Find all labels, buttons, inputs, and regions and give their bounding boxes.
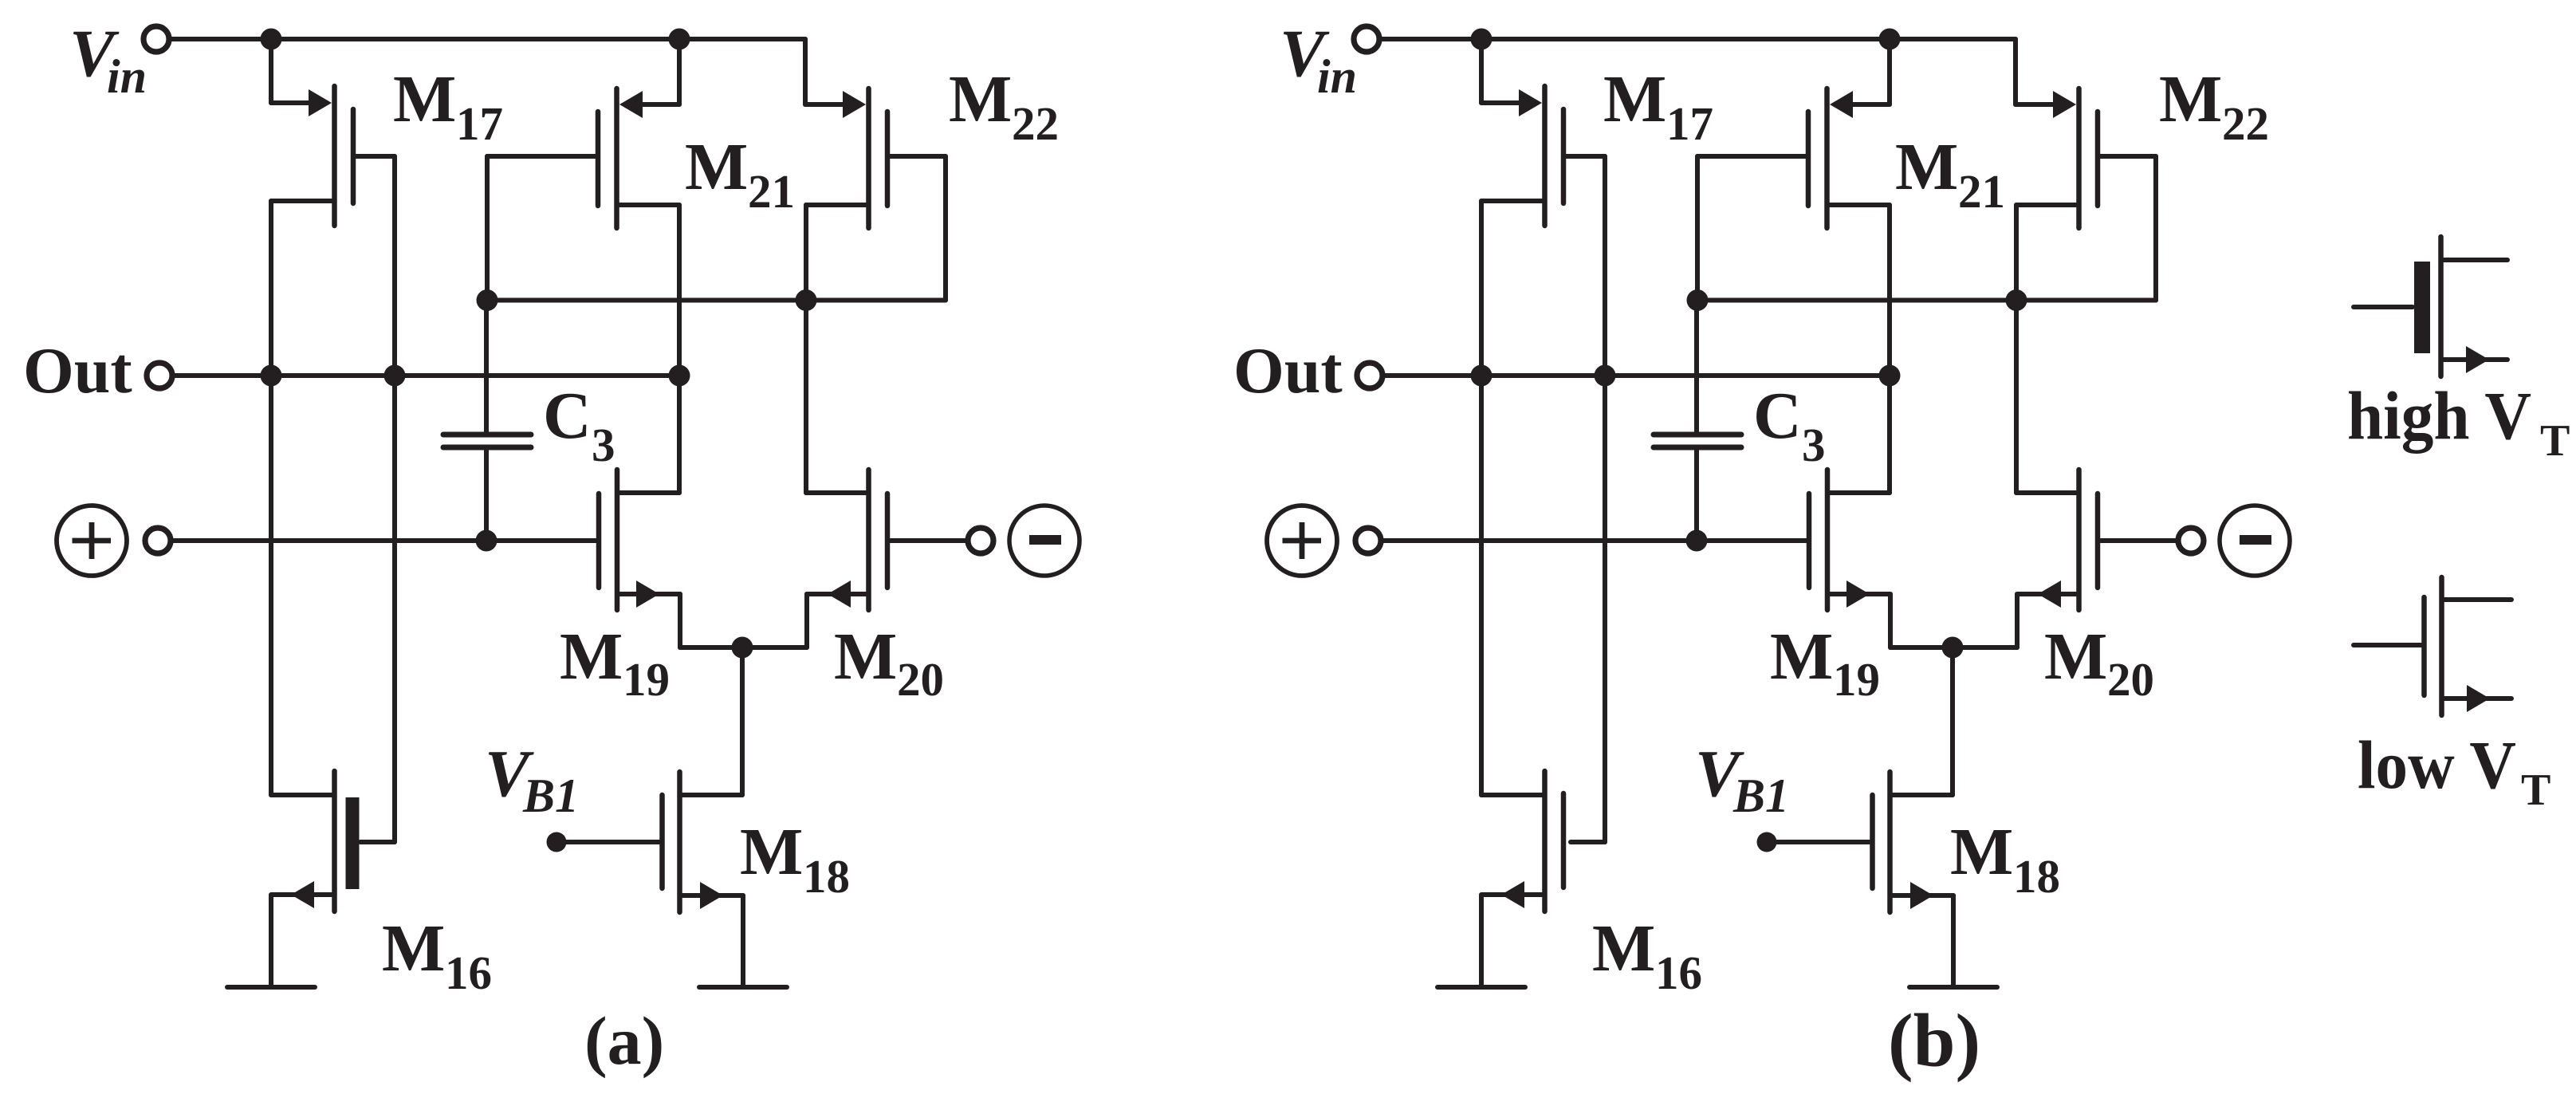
- terminal Out (a): [147, 363, 172, 388]
- svg-text:M: M: [393, 62, 456, 136]
- junction bus-C3 (a): [477, 289, 498, 311]
- svg-text:Out: Out: [1233, 334, 1343, 407]
- svg-text:M: M: [949, 62, 1012, 136]
- junction bus-M22 drain (a): [796, 289, 817, 311]
- svg-text:M: M: [1895, 130, 1958, 204]
- svg-text:19: 19: [623, 653, 670, 706]
- svg-text:17: 17: [1666, 97, 1713, 150]
- svg-text:M: M: [1770, 620, 1833, 694]
- svg-text:22: 22: [2222, 97, 2269, 150]
- svg-text:3: 3: [592, 419, 615, 471]
- wire M17 gate to M16 gate (b): [1603, 156, 1607, 842]
- plus input symbol (a): [57, 506, 127, 576]
- svg-text:(a): (a): [584, 1002, 664, 1079]
- svg-text:21: 21: [1958, 165, 2005, 218]
- junction rail-M21 (b): [1879, 29, 1901, 50]
- svg-text:high V: high V: [2347, 377, 2531, 454]
- junction Out-M21 drain (b): [1879, 365, 1901, 387]
- svg-text:C: C: [543, 379, 592, 453]
- svg-text:M: M: [382, 911, 445, 986]
- terminal Out (b): [1357, 363, 1382, 388]
- svg-text:T: T: [2521, 765, 2550, 815]
- svg-text:in: in: [107, 50, 147, 103]
- svg-text:M: M: [1950, 815, 2013, 889]
- svg-text:(b): (b): [1888, 998, 1980, 1083]
- wire plus line (a): [171, 538, 596, 543]
- transistor M19 (a): [599, 470, 680, 647]
- transistor M20 (a): [806, 470, 966, 647]
- transistor M21 (a): [487, 39, 679, 228]
- svg-text:C: C: [1753, 379, 1802, 453]
- junction Out-M17 drain (a): [261, 365, 282, 387]
- svg-text:M: M: [834, 620, 897, 694]
- svg-text:M: M: [2159, 62, 2222, 136]
- ground M18 (a): [699, 985, 787, 990]
- transistor M16 (a): [271, 771, 395, 987]
- terminal minus (a): [968, 528, 993, 553]
- svg-text:21: 21: [748, 165, 795, 218]
- junction Out-M17 gate (b): [1595, 365, 1616, 387]
- junction tail-M18 (a): [732, 637, 753, 659]
- junction Out-M17 gate (a): [384, 365, 406, 387]
- wire Vin rail (b): [1379, 37, 2016, 41]
- plus input symbol (b): [1267, 506, 1337, 576]
- terminal VB1 (a): [547, 832, 567, 852]
- wire M17 gate to M16 gate (a): [392, 156, 397, 842]
- wire tail to M18 drain (a): [740, 647, 745, 795]
- wire M22 gate drop (b): [2153, 156, 2158, 301]
- svg-text:17: 17: [456, 97, 503, 150]
- svg-text:B1: B1: [522, 769, 579, 822]
- junction plus-C3 (a): [476, 530, 498, 552]
- transistor M18 (a): [556, 772, 743, 987]
- legend low-VT transistor symbol: [2354, 577, 2511, 715]
- svg-text:16: 16: [1655, 946, 1702, 999]
- junction Out-M17 drain (b): [1471, 365, 1493, 387]
- svg-text:M: M: [2044, 620, 2107, 694]
- transistor M22 (a): [805, 39, 946, 228]
- wire M17 drain to M16 (a): [269, 201, 273, 795]
- wire tail (a): [680, 645, 807, 650]
- junction bus-C3 (b): [1687, 289, 1709, 311]
- junction plus-C3 (b): [1686, 530, 1708, 552]
- wire M21 gate drop (b): [1695, 156, 1700, 301]
- wire gate bus (b): [1697, 298, 2156, 303]
- svg-text:B1: B1: [1732, 769, 1789, 822]
- wire M22/M20 drain drop (a): [804, 205, 808, 493]
- svg-text:22: 22: [1012, 97, 1059, 150]
- terminal Vin (b): [1354, 26, 1379, 52]
- wire M22 gate drop (a): [943, 156, 948, 301]
- terminal minus (b): [2178, 528, 2204, 553]
- wire M21 gate drop (a): [485, 156, 490, 301]
- transistor M18 (b): [1767, 772, 1953, 987]
- wire M17 drain to M16 (b): [1479, 201, 1484, 795]
- minus input symbol (a): [1009, 506, 1080, 576]
- wire Out line (b): [1382, 373, 1890, 378]
- transistor M21 (b): [1697, 39, 1890, 228]
- ground M16 (b): [1437, 985, 1525, 990]
- junction tail-M18 (b): [1942, 637, 1964, 659]
- svg-text:M: M: [1603, 62, 1666, 136]
- svg-text:18: 18: [2013, 850, 2060, 903]
- wire M21 drain drop (b): [1887, 205, 1892, 493]
- svg-text:low V: low V: [2358, 726, 2516, 803]
- transistor M22 (b): [2016, 39, 2156, 228]
- svg-text:M: M: [1592, 911, 1655, 986]
- transistor M17 (b): [1481, 39, 1605, 226]
- junction rail-M17 (a): [261, 29, 282, 50]
- terminal VB1 (b): [1757, 832, 1777, 852]
- svg-text:20: 20: [897, 653, 944, 706]
- wire gate bus (a): [487, 298, 946, 303]
- svg-text:M: M: [740, 815, 803, 889]
- junction rail-M21 (a): [669, 29, 690, 50]
- svg-text:M: M: [560, 620, 623, 694]
- wire plus line (b): [1381, 538, 1807, 543]
- wire tail (b): [1890, 645, 2017, 650]
- transistor M20 (b): [2016, 470, 2177, 647]
- svg-text:16: 16: [445, 946, 492, 999]
- terminal plus (a): [145, 528, 171, 553]
- svg-text:3: 3: [1802, 419, 1826, 471]
- ground M16 (a): [227, 985, 315, 990]
- svg-text:T: T: [2540, 416, 2570, 466]
- transistor M17 (a): [271, 39, 395, 226]
- junction Out-M21 drain (a): [669, 365, 690, 387]
- capacitor C3 (a): [443, 301, 531, 541]
- wire Out line (a): [172, 373, 679, 378]
- transistor M19 (b): [1809, 470, 1890, 647]
- junction rail-M17 (b): [1471, 29, 1493, 50]
- svg-text:19: 19: [1833, 653, 1880, 706]
- terminal plus (b): [1355, 528, 1381, 553]
- wire M22/M20 drain drop (b): [2014, 205, 2019, 493]
- svg-text:in: in: [1317, 50, 1357, 103]
- svg-text:20: 20: [2107, 653, 2154, 706]
- capacitor C3 (b): [1654, 301, 1741, 541]
- wire Vin rail (a): [169, 37, 805, 41]
- wire tail to M18 drain (b): [1950, 647, 1955, 795]
- wire M21 drain drop (a): [677, 205, 682, 493]
- ground M18 (b): [1909, 985, 1997, 990]
- junction bus-M22 drain (b): [2006, 289, 2027, 311]
- minus input symbol (b): [2220, 506, 2290, 576]
- transistor M16 (b): [1481, 771, 1605, 987]
- svg-text:Out: Out: [23, 334, 132, 407]
- svg-text:18: 18: [803, 850, 850, 903]
- svg-text:M: M: [685, 130, 748, 204]
- legend high-VT transistor symbol: [2354, 237, 2507, 376]
- terminal Vin (a): [144, 26, 169, 52]
